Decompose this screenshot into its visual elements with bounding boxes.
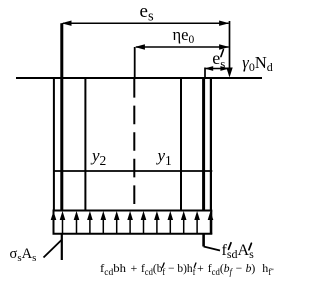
prime of b'_f in formula: [163, 263, 165, 267]
leader line f'sd A's vertical: [202, 234, 205, 247]
stress arrow 6: [116, 216, 118, 233]
stress arrow 4: [89, 216, 91, 233]
axial force line gamma0 Nd: [229, 21, 231, 73]
stress arrow 13: [210, 216, 212, 233]
extension line above A's rebar: [204, 68, 206, 79]
stress arrow 12: [196, 216, 198, 233]
stress arrow 3: [76, 216, 78, 233]
section left edge: [53, 78, 55, 211]
stress block bottom line: [53, 233, 213, 235]
eta e_0 left arrowhead: [135, 44, 145, 49]
eta e_0 right arrowhead: [219, 44, 229, 49]
rebar line A's (thick): [202, 78, 205, 211]
svg-text:fcdbh: fcdbh: [100, 261, 126, 277]
e'_s left arrowhead: [204, 66, 213, 71]
svg-text:fsdAs: fsdAs: [222, 242, 255, 261]
force arrowhead: [226, 68, 232, 78]
prime of A'_s: [249, 243, 252, 250]
dimension line e'_s: [206, 68, 229, 70]
leader line sigma_s As diagonal: [44, 240, 63, 258]
prime of h'_f in formula: [194, 263, 196, 267]
faint trailing mark: [271, 269, 274, 271]
stress arrow 9: [156, 216, 158, 233]
leader line sigma_s As vertical: [61, 234, 63, 260]
leader line f'sd A's diagonal: [204, 247, 220, 251]
section right edge: [210, 78, 212, 211]
rebar line As (thick, runs from e_s dim to below box): [60, 23, 63, 210]
centroid axis solid stub above section: [134, 47, 136, 78]
stress block left edge: [53, 211, 55, 234]
svg-text:σsAs: σsAs: [10, 246, 37, 264]
svg-text:hf: hf: [262, 261, 271, 277]
stress block right edge: [210, 211, 212, 234]
dimension line e_s: [63, 22, 229, 24]
svg-text:y2: y2: [90, 146, 106, 168]
stress arrow 2: [62, 216, 64, 233]
mid horizontal line: [54, 170, 213, 172]
centroid axis dashed: [133, 79, 135, 211]
stress arrow 1: [53, 216, 55, 233]
prime of f'_sd: [229, 243, 232, 250]
prime of e'_s: [221, 50, 224, 57]
left flange inner line: [84, 78, 86, 211]
svg-text:y1: y1: [156, 146, 172, 168]
stress arrow 10: [169, 216, 171, 233]
stress arrow 7: [129, 216, 131, 233]
svg-text:fcd(bf − b): fcd(bf − b): [208, 261, 256, 277]
e_s right arrowhead: [219, 21, 229, 26]
stress arrow 8: [143, 216, 145, 233]
stress arrow 5: [102, 216, 104, 233]
svg-text:ηe0: ηe0: [173, 25, 195, 46]
e'_s right arrowhead: [220, 66, 229, 71]
svg-text:γ0Nd: γ0Nd: [242, 53, 272, 74]
svg-text:es: es: [140, 1, 154, 25]
stress arrow 11: [183, 216, 185, 233]
stress block top line: [53, 210, 213, 212]
svg-text:+: +: [197, 261, 204, 275]
dimension line eta e_0: [136, 46, 229, 48]
e_s left arrowhead: [61, 21, 71, 26]
svg-text:+: +: [131, 261, 138, 275]
svg-text:fcd(bf − b)hf: fcd(bf − b)hf: [141, 261, 196, 277]
top bearing line of section: [16, 77, 262, 79]
right flange inner line: [180, 78, 182, 211]
